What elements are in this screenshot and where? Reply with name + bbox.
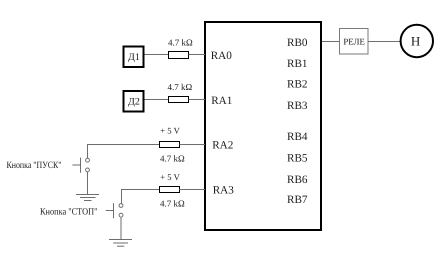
svg-text:RA1: RA1 (211, 95, 232, 107)
ground GND1 (76, 195, 99, 201)
svg-text:RB3: RB3 (287, 100, 308, 112)
svg-text:RB7: RB7 (287, 194, 308, 206)
wire SB1 to ground (87, 172, 89, 195)
wire corner to R4 (122, 190, 160, 204)
svg-text:RB4: RB4 (287, 131, 308, 143)
resistor R3 (160, 142, 180, 148)
ground GND2 (109, 240, 132, 247)
pushbutton SB2 (106, 203, 123, 218)
svg-text:RA2: RA2 (212, 140, 233, 152)
svg-text:+ 5 V: + 5 V (160, 125, 180, 135)
relay K1 box (340, 29, 369, 55)
svg-text:Кнопка "СТОП": Кнопка "СТОП" (40, 206, 98, 217)
svg-text:RA0: RA0 (211, 50, 233, 62)
wire R1 to RA0 (189, 54, 206, 56)
wire D1 to R1 (145, 54, 170, 56)
svg-text:RB6: RB6 (287, 174, 308, 186)
resistor R2 (169, 97, 189, 103)
svg-text:4.7 kΩ: 4.7 kΩ (160, 198, 185, 208)
microcontroller U1 (205, 22, 321, 230)
sensor D2 box (124, 91, 144, 112)
svg-text:RA3: RA3 (213, 185, 235, 197)
wire R2 to RA1 (189, 99, 206, 101)
motor M1 (401, 25, 433, 57)
svg-text:Кнопка "ПУСК": Кнопка "ПУСК" (7, 160, 62, 171)
wire SB2 to ground (120, 217, 122, 239)
sensor D1 box (124, 47, 144, 68)
svg-text:RB5: RB5 (287, 153, 308, 165)
svg-text:Д2: Д2 (128, 96, 140, 107)
wire R4 to RA3 (180, 189, 206, 191)
svg-text:4.7 kΩ: 4.7 kΩ (168, 37, 193, 47)
svg-text:+ 5 V: + 5 V (160, 172, 180, 182)
pushbutton SB1 (72, 158, 89, 173)
wire RB0 to relay (322, 41, 340, 43)
svg-text:РЕЛЕ: РЕЛЕ (343, 36, 365, 46)
svg-text:Д1: Д1 (128, 52, 140, 63)
resistor R4 (160, 187, 180, 193)
wire D2 to R2 (145, 99, 170, 101)
svg-text:4.7 kΩ: 4.7 kΩ (168, 82, 193, 92)
svg-text:RB1: RB1 (287, 58, 308, 70)
resistor R1 (169, 52, 189, 59)
svg-text:RB2: RB2 (287, 79, 308, 91)
wire relay to motor (368, 41, 401, 43)
wire corner to R3 (88, 145, 160, 159)
svg-text:RB0: RB0 (287, 37, 308, 49)
svg-text:4.7 kΩ: 4.7 kΩ (160, 153, 185, 163)
wire R3 to RA2 (180, 144, 206, 146)
svg-text:Н: Н (411, 33, 420, 48)
